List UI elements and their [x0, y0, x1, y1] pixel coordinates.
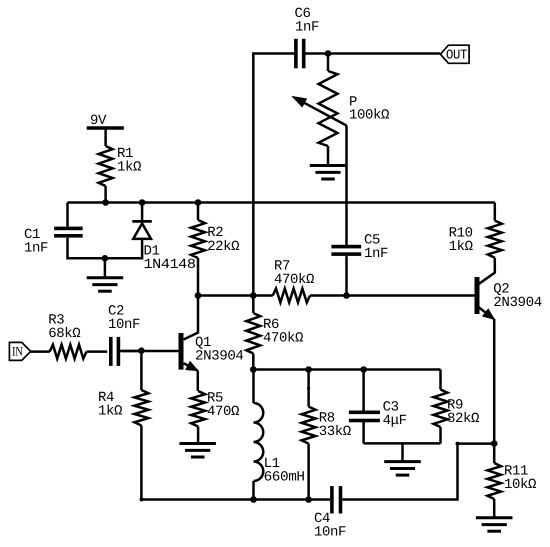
svg-text:10nF: 10nF	[108, 317, 140, 333]
svg-text:660mH: 660mH	[264, 470, 305, 486]
svg-text:470Ω: 470Ω	[207, 404, 239, 420]
svg-text:1kΩ: 1kΩ	[449, 239, 473, 255]
svg-text:22kΩ: 22kΩ	[207, 239, 239, 255]
svg-text:IN: IN	[12, 344, 23, 359]
svg-text:1nF: 1nF	[295, 20, 319, 36]
svg-text:100kΩ: 100kΩ	[349, 108, 389, 124]
svg-text:1kΩ: 1kΩ	[98, 404, 122, 420]
svg-text:1kΩ: 1kΩ	[117, 160, 141, 176]
svg-text:68kΩ: 68kΩ	[48, 326, 80, 342]
svg-text:470kΩ: 470kΩ	[274, 272, 314, 288]
svg-text:10nF: 10nF	[314, 525, 346, 541]
svg-text:82kΩ: 82kΩ	[447, 411, 479, 427]
svg-text:2N3904: 2N3904	[493, 295, 542, 311]
svg-text:33kΩ: 33kΩ	[319, 424, 351, 440]
svg-text:2N3904: 2N3904	[195, 349, 244, 365]
svg-text:4μF: 4μF	[383, 413, 407, 429]
svg-text:OUT: OUT	[446, 49, 467, 64]
svg-text:9V: 9V	[90, 113, 107, 129]
svg-text:1nF: 1nF	[364, 246, 388, 262]
svg-text:470kΩ: 470kΩ	[263, 331, 303, 347]
svg-text:10kΩ: 10kΩ	[504, 477, 536, 493]
svg-text:1N4148: 1N4148	[144, 257, 196, 273]
svg-text:1nF: 1nF	[24, 241, 48, 257]
